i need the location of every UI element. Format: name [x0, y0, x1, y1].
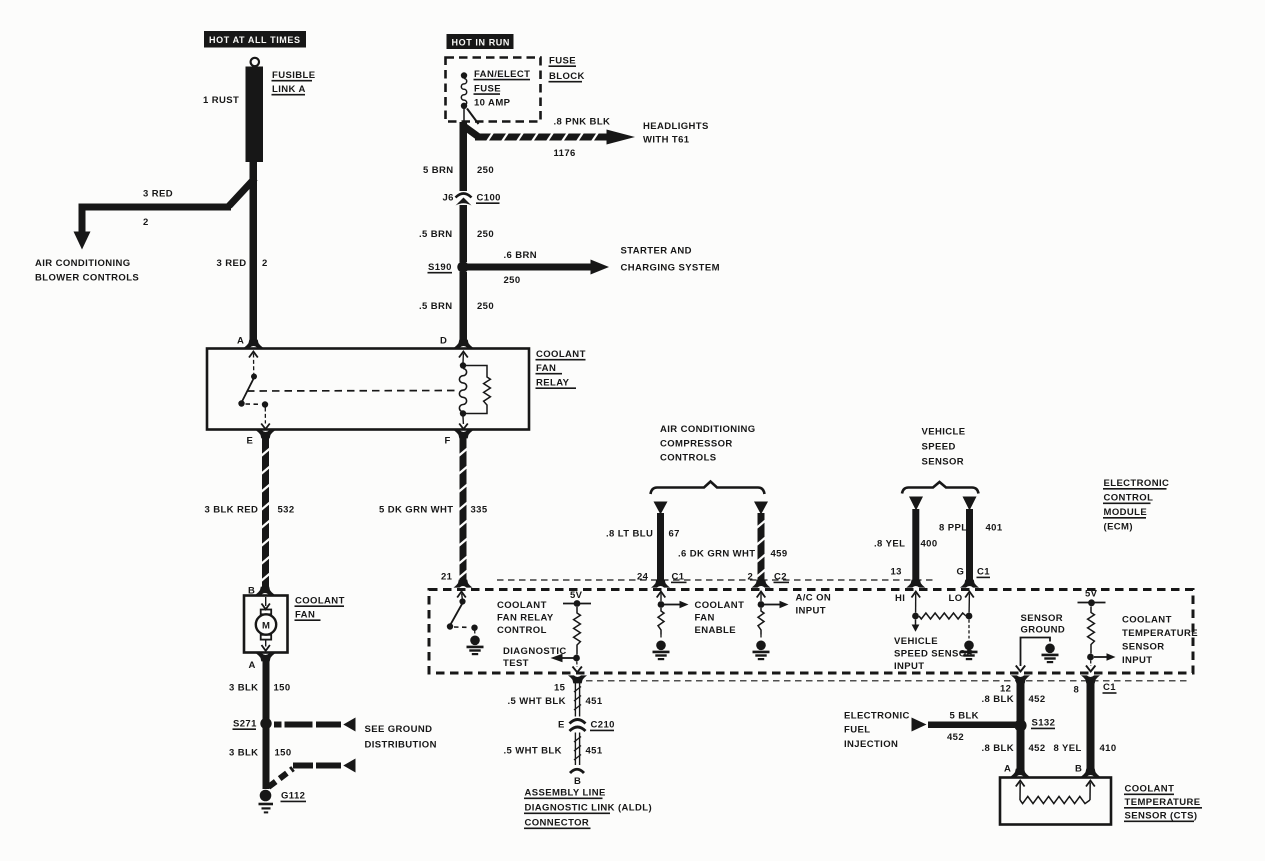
- svg-text:F: F: [445, 436, 451, 447]
- svg-text:C100: C100: [477, 193, 501, 204]
- svg-text:A: A: [237, 336, 244, 347]
- ECM internal 5V supply (diagnostic test divider): [563, 590, 591, 607]
- svg-text:CONNECTOR: CONNECTOR: [525, 818, 590, 829]
- svg-text:S132: S132: [1032, 718, 1056, 729]
- svg-text:FAN: FAN: [695, 613, 715, 624]
- svg-text:E: E: [558, 720, 565, 731]
- svg-text:SPEED: SPEED: [922, 442, 956, 453]
- svg-text:150: 150: [274, 683, 291, 694]
- label .8 LT BLU / 67: [606, 529, 680, 540]
- svg-text:INJECTION: INJECTION: [844, 739, 898, 750]
- svg-text:G112: G112: [281, 791, 305, 802]
- wire .8 BLK 452 (pin 12 to S132): [1017, 681, 1025, 721]
- connector pin A (CTS): [1004, 764, 1030, 777]
- wire .6 DK GRN WHT 459 (hatched): [757, 513, 767, 581]
- svg-text:12: 12: [1000, 684, 1011, 695]
- wire 3 RED 2 (vertical feed to relay pin A): [250, 162, 258, 342]
- wire branch to A/C blower controls: [82, 178, 255, 233]
- svg-text:5V: 5V: [570, 590, 583, 601]
- svg-text:.5 WHT BLK: .5 WHT BLK: [508, 696, 566, 707]
- diagnostic test arrow (left): [551, 654, 575, 662]
- svg-text:.6 DK GRN WHT: .6 DK GRN WHT: [678, 549, 756, 560]
- svg-text:410: 410: [1100, 743, 1117, 754]
- svg-text:COOLANT: COOLANT: [695, 600, 745, 611]
- svg-text:5 DK GRN WHT: 5 DK GRN WHT: [379, 505, 453, 516]
- CTS internal thermistor: [1016, 781, 1095, 804]
- svg-text:1176: 1176: [554, 148, 576, 159]
- svg-text:INPUT: INPUT: [894, 661, 925, 672]
- ALDL end connector cup: [570, 769, 584, 773]
- connector pin B (coolant fan): [248, 586, 275, 597]
- label 5 DK GRN WHT / 335: [379, 505, 488, 516]
- svg-text:VEHICLE: VEHICLE: [922, 427, 966, 438]
- svg-text:CONTROL: CONTROL: [497, 625, 547, 636]
- svg-text:250: 250: [504, 275, 521, 286]
- wire .5 BRN (S190 to relay pin D): [460, 272, 468, 342]
- svg-text:A/C ON: A/C ON: [796, 593, 832, 604]
- svg-text:.5 WHT BLK: .5 WHT BLK: [504, 746, 562, 757]
- svg-text:TEMPERATURE: TEMPERATURE: [1125, 797, 1201, 808]
- label 8 PPL / 401: [939, 523, 1003, 534]
- label VEHICLE SPEED SENSOR INPUT: [894, 636, 974, 672]
- svg-text:RELAY: RELAY: [536, 378, 570, 389]
- svg-text:FUSE: FUSE: [474, 84, 501, 95]
- label SEE GROUND DISTRIBUTION: [365, 724, 437, 751]
- svg-text:5 BLK: 5 BLK: [950, 711, 979, 722]
- label FUSIBLE LINK A: [272, 70, 316, 95]
- label DIAGNOSTIC TEST: [503, 646, 567, 669]
- label SENSOR GROUND: [1021, 613, 1066, 636]
- splice S271: [260, 718, 271, 729]
- svg-text:.5 BRN: .5 BRN: [419, 301, 453, 312]
- label .8 BLK / 452 (lower): [982, 743, 1046, 754]
- ECM internal resistor (diagnostic test): [573, 607, 580, 661]
- ECM internal resistor + ground (A/C on): [753, 608, 770, 659]
- svg-text:SENSOR (CTS): SENSOR (CTS): [1125, 811, 1198, 822]
- svg-text:LO: LO: [949, 593, 963, 604]
- svg-text:COOLANT: COOLANT: [536, 349, 586, 360]
- svg-text:A: A: [1004, 764, 1011, 775]
- wire .5 WHT BLK 451 (pin 15 to C210, thin hatched): [574, 682, 581, 717]
- coolant temperature sensor box: [1000, 778, 1111, 825]
- svg-text:FAN RELAY: FAN RELAY: [497, 613, 554, 624]
- svg-text:451: 451: [586, 696, 603, 707]
- thin companion dashed line above ECM top edge: [497, 579, 935, 581]
- svg-text:FAN/ELECT: FAN/ELECT: [474, 69, 530, 80]
- svg-text:CHARGING SYSTEM: CHARGING SYSTEM: [621, 263, 720, 274]
- label .8 PNK BLK / 1176: [554, 117, 611, 160]
- connector pin B (CTS): [1075, 764, 1100, 777]
- svg-text:C1: C1: [1103, 682, 1116, 693]
- label box HOT AT ALL TIMES: [204, 31, 306, 48]
- svg-text:250: 250: [477, 165, 494, 176]
- wire 8 YEL 410 (pin 8 to CTS B): [1087, 681, 1095, 771]
- wire .8 BLK 452 (S132 to CTS A): [1017, 730, 1025, 771]
- label AIR CONDITIONING BLOWER CONTROLS: [35, 258, 139, 284]
- connector pin A (relay): [237, 336, 263, 348]
- label 3 BLK / 150 (lower): [229, 748, 292, 759]
- ECM internal coolant fan relay control switch: [447, 592, 478, 631]
- label 5 BLK / 452 (EFI wire): [947, 711, 979, 744]
- label S271: [233, 719, 258, 730]
- wire .8 LT BLU 67: [657, 513, 664, 581]
- wire ignition feed (fuse to C100): [460, 122, 468, 191]
- svg-text:M: M: [262, 621, 270, 632]
- label COOLANT FAN ENABLE: [695, 600, 745, 636]
- connector C100 (J6): [456, 194, 472, 206]
- A/C left lead-in triangle: [654, 502, 668, 515]
- svg-text:2: 2: [143, 217, 149, 228]
- fuse block dashed box: [446, 58, 541, 122]
- svg-text:3 BLK RED: 3 BLK RED: [205, 505, 259, 516]
- svg-text:ELECTRONIC: ELECTRONIC: [1104, 478, 1170, 489]
- svg-text:21: 21: [441, 572, 453, 583]
- wire 5 DK GRN WHT 335 (hatched, F to ECM 21): [459, 437, 469, 583]
- label ELECTRONIC FUEL INJECTION: [844, 711, 910, 751]
- connector pin G C1 (ECM): [957, 567, 991, 588]
- wire 3 BLK 150 (S271 to G112): [263, 728, 270, 789]
- label STARTER AND CHARGING SYSTEM: [621, 246, 720, 274]
- label .5 WHT BLK / 451 (upper): [508, 696, 603, 707]
- label ELECTRONIC CONTROL MODULE (ECM): [1103, 478, 1169, 533]
- svg-text:15: 15: [554, 683, 566, 694]
- svg-text:SENSOR: SENSOR: [1021, 613, 1064, 624]
- ECM internal vehicle speed sensor input (HI): [895, 592, 920, 632]
- label .5 WHT BLK / 451 (lower): [504, 746, 603, 757]
- svg-text:3 BLK: 3 BLK: [229, 748, 258, 759]
- connector pin 8 C1 (ECM): [1074, 675, 1117, 695]
- svg-text:.8 BLK: .8 BLK: [982, 694, 1015, 705]
- svg-text:452: 452: [1029, 694, 1046, 705]
- svg-text:250: 250: [477, 229, 494, 240]
- label FAN/ELECT FUSE 10 AMP: [474, 69, 531, 109]
- svg-text:B: B: [1075, 764, 1082, 775]
- label 8 YEL / 410: [1054, 743, 1117, 754]
- ECM internal A/C on input: [757, 592, 789, 609]
- svg-text:10 AMP: 10 AMP: [474, 98, 511, 109]
- coolant fan box: [244, 596, 288, 653]
- wire .5 BRN (C100 to S190): [460, 205, 468, 262]
- dashed reference wire 2 (diagonal from wire): [269, 763, 342, 788]
- reference arrow 1 (see ground distribution): [343, 718, 355, 732]
- dashed reference wire from S271: [274, 722, 341, 728]
- arrow to air conditioning blower controls: [74, 232, 91, 250]
- svg-text:E: E: [247, 436, 254, 447]
- label 1 RUST: [203, 95, 239, 106]
- svg-text:452: 452: [947, 732, 964, 743]
- label 3 BLK RED / 532: [205, 505, 295, 516]
- label .6 BRN / 250: [504, 250, 538, 286]
- arrow to starter and charging system: [591, 260, 610, 275]
- label .8 BLK / 452 (upper): [982, 694, 1046, 705]
- svg-text:INPUT: INPUT: [1122, 655, 1153, 666]
- svg-text:COMPRESSOR: COMPRESSOR: [660, 439, 733, 450]
- svg-text:SENSOR: SENSOR: [1122, 642, 1165, 653]
- svg-text:.8 BLK: .8 BLK: [982, 743, 1015, 754]
- svg-text:3 RED: 3 RED: [217, 258, 247, 269]
- label HEADLIGHTS WITH T61: [643, 121, 709, 146]
- label 3 RED / 2 (branch wire): [143, 189, 173, 229]
- coolant fan motor M: [256, 597, 276, 651]
- splice S132: [1014, 719, 1026, 731]
- svg-text:8 PPL: 8 PPL: [939, 523, 967, 534]
- label G112: [281, 791, 307, 802]
- svg-text:5 BRN: 5 BRN: [423, 165, 454, 176]
- label S190: [428, 262, 453, 273]
- svg-text:150: 150: [275, 748, 292, 759]
- VSS right lead-in triangle: [963, 497, 977, 511]
- wire .8 YEL 400: [912, 509, 919, 581]
- svg-text:ELECTRONIC: ELECTRONIC: [844, 711, 910, 722]
- thin companion dashed line below ECM bottom edge: [586, 680, 1188, 682]
- splice S190: [457, 261, 468, 272]
- svg-text:13: 13: [891, 567, 902, 578]
- ECM internal 5V supply (CTS input): [1078, 589, 1106, 607]
- label COOLANT FAN RELAY CONTROL: [497, 600, 554, 636]
- label .6 DK GRN WHT / 459: [678, 549, 788, 560]
- label 3 RED / 2 (vertical wire): [217, 258, 268, 269]
- fusible link A element: [246, 67, 264, 163]
- svg-text:FUEL: FUEL: [844, 725, 870, 736]
- svg-text:COOLANT: COOLANT: [1122, 615, 1172, 626]
- svg-text:C2: C2: [774, 572, 787, 583]
- svg-text:335: 335: [471, 505, 488, 516]
- svg-text:FUSIBLE: FUSIBLE: [272, 70, 315, 81]
- label AIR CONDITIONING COMPRESSOR CONTROLS: [660, 424, 756, 464]
- svg-text:2: 2: [262, 258, 268, 269]
- connector pin D (relay): [440, 336, 473, 348]
- svg-text:400: 400: [921, 539, 938, 550]
- label .5 BRN 250 (lower): [419, 301, 494, 312]
- ground G112: [259, 790, 274, 813]
- coolant temperature sensor input arrow: [1094, 653, 1116, 660]
- arrow to headlights: [607, 130, 636, 145]
- coolant fan relay box: [207, 349, 529, 430]
- connector pin 24 C1 (ECM): [637, 572, 687, 588]
- svg-text:67: 67: [669, 529, 680, 540]
- arrow from electronic fuel injection: [912, 718, 927, 732]
- svg-text:HEADLIGHTS: HEADLIGHTS: [643, 121, 709, 132]
- connector pin A (coolant fan): [249, 653, 276, 671]
- ECM internal resistor (CTS input): [1087, 607, 1094, 661]
- svg-text:CONTROLS: CONTROLS: [660, 453, 717, 464]
- wire 3 BLK 150 (fan A to S271): [263, 660, 270, 720]
- label E / C210: [558, 720, 615, 731]
- connector pin 21 (ECM): [441, 572, 473, 588]
- svg-text:SENSOR: SENSOR: [922, 457, 965, 468]
- label 5 BRN 250: [423, 165, 494, 176]
- brace over A/C wires: [651, 482, 765, 495]
- svg-text:COOLANT: COOLANT: [295, 596, 345, 607]
- connector pin 13 (ECM): [891, 567, 926, 588]
- fuse FAN/ELECT 10 AMP: [461, 72, 467, 122]
- wire .6 BRN to starter: [467, 264, 592, 271]
- svg-text:INPUT: INPUT: [796, 606, 827, 617]
- svg-text:.6 BRN: .6 BRN: [504, 250, 538, 261]
- wire 8 PPL 401: [966, 509, 973, 581]
- svg-text:1 RUST: 1 RUST: [203, 95, 239, 106]
- svg-text:MODULE: MODULE: [1104, 507, 1148, 518]
- ECM box (dashed): [429, 590, 1193, 674]
- svg-text:8: 8: [1074, 685, 1080, 696]
- label COOLANT TEMPERATURE SENSOR (CTS): [1124, 784, 1202, 822]
- dashed drop to pin 15 with down arrow: [573, 662, 582, 673]
- svg-text:DIAGNOSTIC LINK (ALDL): DIAGNOSTIC LINK (ALDL): [525, 803, 653, 814]
- label .5 BRN 250 (upper): [419, 229, 494, 240]
- VSS left lead-in triangle: [909, 497, 923, 511]
- svg-text:452: 452: [1029, 743, 1046, 754]
- connector pin E (relay): [247, 430, 276, 446]
- label box HOT IN RUN: [447, 34, 514, 49]
- svg-text:COOLANT: COOLANT: [1125, 784, 1175, 795]
- svg-text:401: 401: [986, 523, 1003, 534]
- dashed drop to pin 8 with down arrow: [1086, 661, 1095, 672]
- svg-text:SPEED SENSOR: SPEED SENSOR: [894, 649, 974, 660]
- connector C210 (E): [570, 720, 586, 732]
- svg-text:VEHICLE: VEHICLE: [894, 636, 938, 647]
- ECM internal ground (below relay control switch): [467, 631, 484, 655]
- wire .5 WHT BLK 451 (C210 to ALDL, thin hatched): [574, 733, 581, 766]
- svg-text:2: 2: [748, 572, 754, 583]
- crossover tick at headlight branch: [467, 109, 479, 125]
- wire 3 BLK RED 532 (hatched, E to fan B): [261, 437, 271, 589]
- svg-text:FUSE: FUSE: [549, 56, 576, 67]
- label .8 YEL / 400: [874, 539, 938, 550]
- svg-text:ENABLE: ENABLE: [695, 625, 736, 636]
- connector pin 2 C2 (ECM): [748, 572, 790, 588]
- svg-text:C1: C1: [977, 567, 990, 578]
- ECM internal resistor between HI and LO: [919, 613, 966, 619]
- svg-text:3 RED: 3 RED: [143, 189, 173, 200]
- svg-text:.8 PNK BLK: .8 PNK BLK: [554, 117, 611, 128]
- svg-text:HI: HI: [895, 593, 905, 604]
- ECM internal sensor ground wire to pin 12: [1016, 638, 1050, 672]
- svg-text:HOT IN RUN: HOT IN RUN: [452, 38, 511, 48]
- label COOLANT TEMPERATURE SENSOR INPUT: [1122, 615, 1198, 667]
- svg-text:.5 BRN: .5 BRN: [419, 229, 453, 240]
- svg-text:GROUND: GROUND: [1021, 625, 1066, 636]
- ECM internal VSS LO side: [949, 592, 974, 639]
- label COOLANT FAN RELAY: [536, 349, 586, 389]
- svg-text:TEST: TEST: [503, 658, 529, 669]
- svg-text:AIR CONDITIONING: AIR CONDITIONING: [660, 424, 756, 435]
- svg-text:J6: J6: [443, 193, 454, 204]
- label S132: [1031, 718, 1055, 729]
- svg-text:STARTER AND: STARTER AND: [621, 246, 692, 257]
- svg-text:250: 250: [477, 301, 494, 312]
- svg-text:LINK A: LINK A: [272, 84, 306, 95]
- svg-text:A: A: [249, 660, 256, 671]
- reference arrow 2 (see ground distribution): [343, 759, 355, 773]
- fusible link terminal ring: [251, 58, 259, 66]
- brace over VSS wires: [902, 482, 979, 494]
- wire .8 PNK BLK branch (hatched): [463, 126, 608, 142]
- svg-text:FAN: FAN: [536, 363, 556, 374]
- label FUSE BLOCK: [549, 56, 585, 83]
- svg-text:D: D: [440, 336, 447, 347]
- svg-text:DIAGNOSTIC: DIAGNOSTIC: [503, 646, 567, 657]
- wire 5 BLK 452 (EFI to S132): [928, 722, 1016, 729]
- svg-text:COOLANT: COOLANT: [497, 600, 547, 611]
- svg-text:451: 451: [586, 746, 603, 757]
- svg-text:.8 LT BLU: .8 LT BLU: [606, 529, 653, 540]
- connector pin F (relay): [445, 430, 474, 446]
- svg-text:BLOWER CONTROLS: BLOWER CONTROLS: [35, 273, 139, 284]
- svg-text:SEE GROUND: SEE GROUND: [365, 724, 433, 735]
- label 3 BLK / 150 (upper): [229, 683, 291, 694]
- label COOLANT FAN: [295, 596, 345, 621]
- label ASSEMBLY LINE DIAGNOSTIC LINK (ALDL) CONNECTOR: [524, 788, 652, 829]
- svg-text:S190: S190: [428, 262, 452, 273]
- label J6 / C100: [443, 193, 501, 204]
- svg-text:8 YEL: 8 YEL: [1054, 743, 1082, 754]
- relay coil with parallel resistor: [459, 352, 490, 430]
- svg-text:C210: C210: [591, 720, 615, 731]
- svg-text:532: 532: [278, 505, 295, 516]
- ECM internal resistor + ground (fan enable): [653, 608, 670, 659]
- label VEHICLE SPEED SENSOR (top): [922, 427, 966, 468]
- connector pin 15 (ECM): [554, 675, 587, 693]
- svg-text:FAN: FAN: [295, 610, 315, 621]
- svg-text:G: G: [957, 567, 965, 578]
- svg-text:CONTROL: CONTROL: [1104, 493, 1154, 504]
- connector pin 12 (ECM): [1000, 675, 1030, 694]
- svg-text:BLOCK: BLOCK: [549, 71, 585, 82]
- svg-text:AIR CONDITIONING: AIR CONDITIONING: [35, 258, 131, 269]
- A/C right lead-in triangle: [754, 502, 768, 515]
- svg-text:DISTRIBUTION: DISTRIBUTION: [365, 740, 437, 751]
- svg-text:(ECM): (ECM): [1104, 522, 1133, 533]
- svg-text:.8 YEL: .8 YEL: [874, 539, 905, 550]
- relay switch (internal, pin A to pin E): [238, 352, 269, 430]
- relay actuation dashed link: [247, 390, 457, 393]
- ECM internal coolant fan enable input: [657, 592, 689, 609]
- svg-text:459: 459: [771, 549, 788, 560]
- svg-text:ASSEMBLY LINE: ASSEMBLY LINE: [525, 788, 606, 799]
- ECM internal ground (sensor ground): [1042, 644, 1059, 663]
- label B (ALDL pin): [574, 776, 581, 787]
- ECM internal ground (VSS LO): [961, 641, 978, 660]
- svg-text:TEMPERATURE: TEMPERATURE: [1122, 628, 1198, 639]
- svg-text:C1: C1: [672, 572, 685, 583]
- svg-text:B: B: [574, 776, 581, 787]
- svg-text:3 BLK: 3 BLK: [229, 683, 258, 694]
- svg-text:24: 24: [637, 572, 649, 583]
- svg-text:S271: S271: [233, 719, 257, 730]
- label A/C ON INPUT: [796, 593, 832, 617]
- svg-text:HOT AT ALL TIMES: HOT AT ALL TIMES: [209, 35, 301, 45]
- svg-text:5V: 5V: [1085, 589, 1098, 600]
- svg-text:WITH T61: WITH T61: [643, 135, 690, 146]
